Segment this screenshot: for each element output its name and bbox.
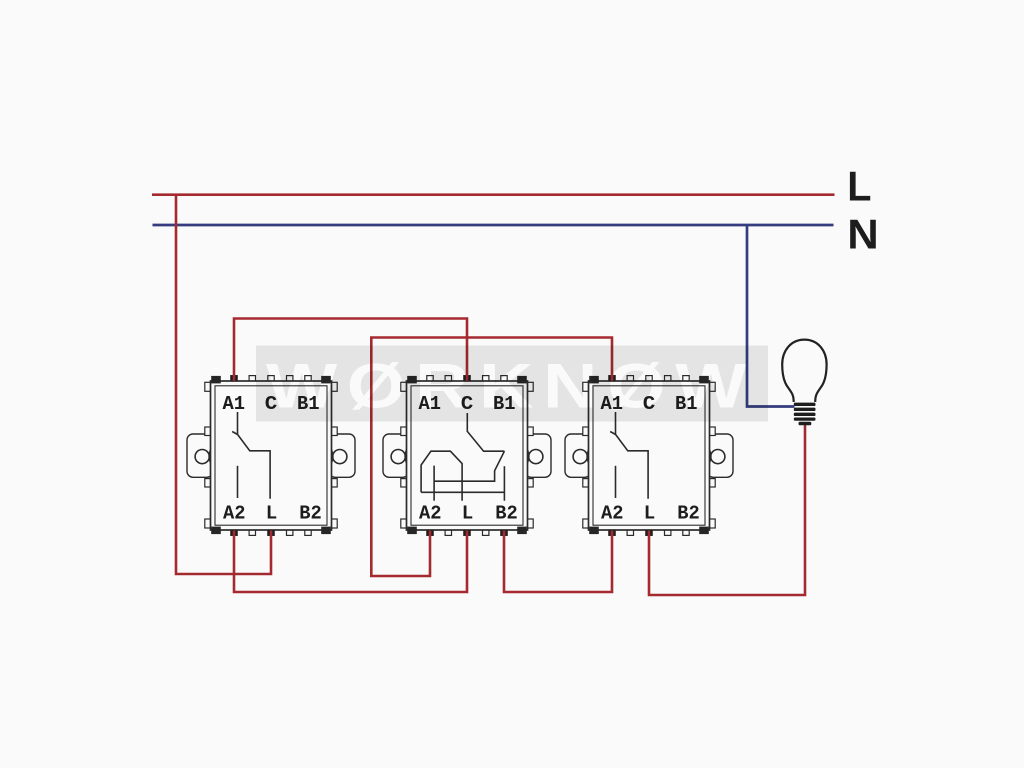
wire: SW3 A1 to SW2 A2 bbox=[371, 338, 612, 577]
junction: SW3 A1 top tab bbox=[609, 376, 615, 381]
junction: SW1 A1 top tab bbox=[231, 376, 237, 381]
SW1 terminal labels A1 C B1 A2 L B2 bbox=[222, 393, 321, 525]
junction: SW2 C top tab bbox=[464, 376, 470, 381]
wire: SW3 L to lamp bbox=[649, 423, 805, 595]
SW3 two-way switch mechanism bbox=[610, 412, 648, 499]
SW3 terminal labels A1 C B1 A2 L B2 bbox=[600, 393, 699, 525]
junction: SW2 A2 bottom tab bbox=[427, 530, 433, 535]
switch SW1 (two-way) bbox=[187, 376, 355, 536]
switch SW3 (two-way) bbox=[565, 376, 733, 536]
lamp bulb bbox=[782, 340, 826, 426]
svg-text:N: N bbox=[847, 211, 879, 258]
SW2 body shell bbox=[383, 376, 551, 536]
junction: SW3 A2 bottom tab bbox=[609, 530, 615, 535]
wire: SW1 A2 to SW2 L bbox=[234, 531, 467, 593]
wire: SW1 A1 to SW2 C bbox=[234, 319, 467, 381]
junction: SW2 L bottom tab bbox=[464, 530, 470, 535]
wire: SW2 B2 to SW3 A2 bbox=[504, 531, 612, 593]
SW3 body shell bbox=[565, 376, 733, 536]
SW1 two-way switch mechanism bbox=[232, 412, 270, 499]
junction: SW2 B2 bottom tab bbox=[501, 530, 507, 535]
SW1 body shell bbox=[187, 376, 355, 536]
SW2 terminal labels A1 C B1 A2 L B2 bbox=[418, 393, 517, 525]
junction: SW1 L bottom tab bbox=[268, 530, 274, 535]
switch SW2 (intermediate) bbox=[383, 376, 551, 536]
wire: live feed to SW1 L terminal bbox=[176, 194, 271, 575]
wire N line bbox=[153, 224, 834, 227]
wire L line bbox=[152, 193, 835, 196]
wire: N to lamp bbox=[747, 224, 795, 407]
junction: SW1 A2 bottom tab bbox=[231, 530, 237, 535]
SW2 intermediate switch mechanism bbox=[421, 413, 504, 501]
junction: SW3 L bottom tab bbox=[646, 530, 652, 535]
svg-text:L: L bbox=[847, 163, 871, 210]
